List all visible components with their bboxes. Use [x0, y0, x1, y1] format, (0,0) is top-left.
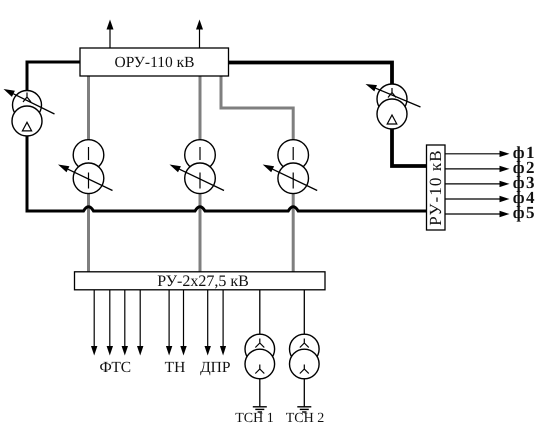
svg-text:ДПР: ДПР [200, 359, 230, 376]
wire: ТСН 2 drop [303, 290, 305, 337]
feeder arrows ФТС (4) [91, 290, 143, 356]
svg-text:РУ-10 кВ: РУ-10 кВ [426, 149, 445, 225]
wire: gray riser, transformer 2 [199, 76, 202, 273]
wire: gray riser, transformer 1 [87, 76, 90, 273]
transformer 1 (traction, two windings with regulation arrow) [58, 140, 113, 194]
feeder arrow ф1 [445, 143, 536, 162]
wire: 110 kV feed, left loop from ОРУ bus [27, 62, 80, 211]
ground (ТСН 2) [297, 407, 311, 412]
feeder arrow ф4 [445, 188, 536, 207]
feeder arrows ТН (2) [166, 290, 187, 356]
feeder arrow up #2 [196, 20, 203, 49]
busbar box ОРУ-110 кВ [80, 48, 229, 76]
transformer (left outer, star/delta with regulation arrow) [4, 89, 55, 136]
svg-text:ТН: ТН [165, 359, 186, 376]
transformer ТСН 2 (station auxiliary) [290, 334, 320, 379]
svg-text:РУ-2х27,5 кВ: РУ-2х27,5 кВ [157, 273, 249, 290]
svg-text:ТСН 1: ТСН 1 [235, 411, 274, 426]
transformer 3 (traction, two windings with regulation arrow) [263, 140, 318, 194]
transformer 2 (traction, two windings with regulation arrow) [170, 140, 225, 194]
wire: 27.5 kV bus with hop-overs [26, 207, 427, 211]
wire: ТСН 1 to ground [259, 378, 261, 406]
svg-text:ФТС: ФТС [99, 359, 131, 376]
wire: ТСН 2 to ground [303, 378, 305, 406]
feeder arrow ф3 [445, 173, 536, 192]
switchgear box РУ-10 кВ [426, 145, 445, 230]
svg-text:ТСН 2: ТСН 2 [286, 411, 325, 426]
feeder arrow up #1 [107, 20, 114, 49]
transformer ТСН 1 (station auxiliary) [245, 334, 275, 379]
feeder arrow ф2 [445, 158, 536, 177]
feeder arrow ф5 [445, 203, 536, 222]
wire: gray riser, transformer 3 (with jog) [221, 76, 293, 273]
transformer (right outer, star/delta with regulation arrow) [366, 84, 421, 129]
wire: 110 kV feed, right loop from ОРУ bus to РУ-10 [229, 63, 427, 167]
feeder arrows ДПР (2) [205, 290, 227, 356]
wire: ТСН 1 drop [259, 290, 261, 337]
ground (ТСН 1) [253, 407, 267, 412]
svg-text:ОРУ-110 кВ: ОРУ-110 кВ [115, 54, 195, 71]
busbar box РУ-2х27,5 кВ [75, 272, 326, 290]
svg-text:ф5: ф5 [513, 203, 536, 222]
